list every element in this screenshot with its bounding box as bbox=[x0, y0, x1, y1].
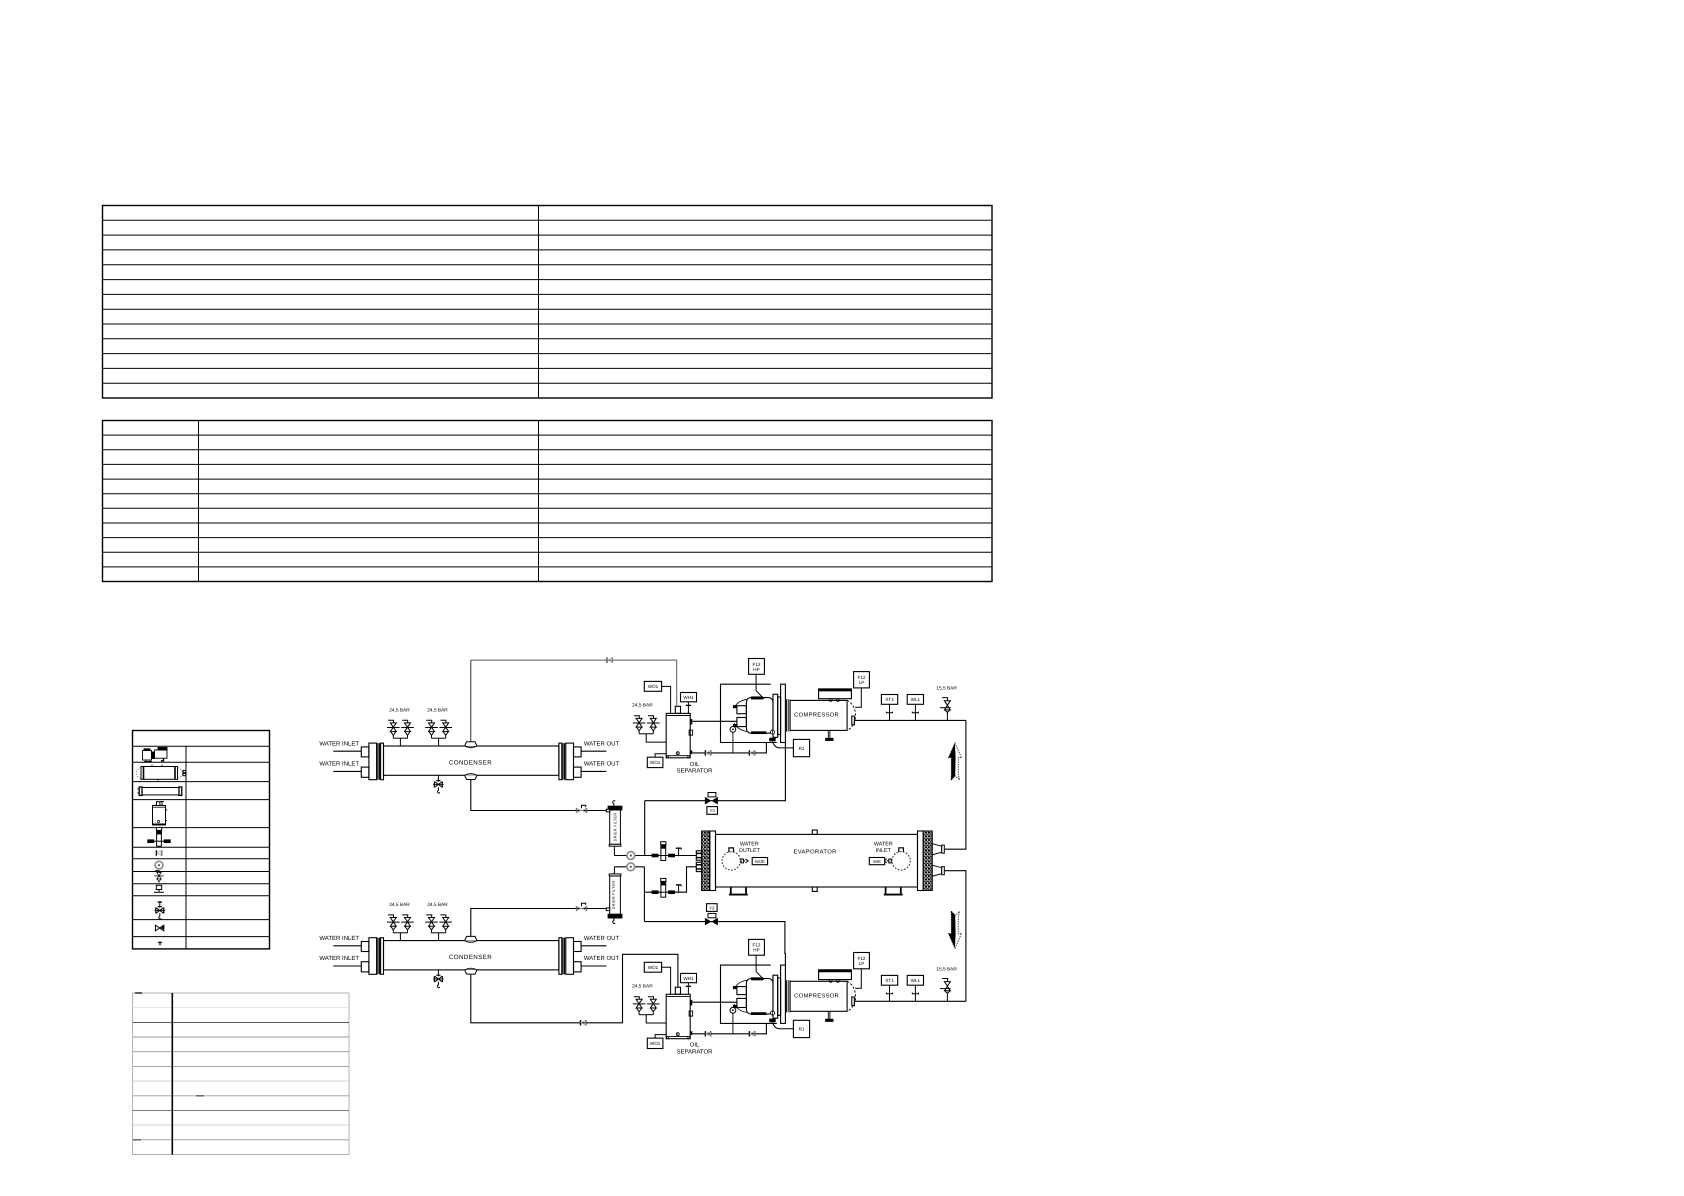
svg-text:COMPRESSOR: COMPRESSOR bbox=[794, 712, 839, 719]
condenser top nozzle (upper) bbox=[465, 742, 477, 746]
oil separator (lower) bbox=[666, 987, 692, 1039]
WO1 bottom box (upper) bbox=[655, 754, 666, 758]
svg-text:SEPARATOR: SEPARATOR bbox=[676, 1049, 713, 1056]
svg-text:WO1: WO1 bbox=[648, 965, 659, 970]
drier filter (upper) bbox=[606, 801, 622, 856]
svg-text:WATER: WATER bbox=[874, 841, 893, 847]
svg-text:Y3: Y3 bbox=[709, 905, 715, 910]
relief valve pair 2 (upper) (24,5 BAR) bbox=[438, 738, 440, 746]
oil check valve 1 (lower) bbox=[705, 1031, 710, 1036]
evaporator right cones bbox=[932, 844, 944, 877]
liquid line lower 2 bbox=[614, 866, 644, 868]
svg-text:24,5 BAR: 24,5 BAR bbox=[427, 902, 448, 908]
condenser drain valve (lower) bbox=[433, 970, 444, 988]
svg-text:24,5 BAR: 24,5 BAR bbox=[632, 983, 653, 989]
svg-text:DRIER FILTER: DRIER FILTER bbox=[611, 881, 616, 910]
bypass drop upper bbox=[644, 801, 646, 856]
condenser vessel (upper) bbox=[361, 743, 581, 780]
legend icon: solenoid valve bbox=[155, 925, 164, 931]
svg-text:Y3: Y3 bbox=[710, 808, 716, 813]
relief valve pair 2 (lower) (24,5 BAR) bbox=[438, 933, 440, 941]
svg-text:WATER INLET: WATER INLET bbox=[319, 760, 359, 767]
svg-text:24,5 BAR: 24,5 BAR bbox=[427, 708, 448, 714]
legend icon: compressor bbox=[143, 748, 168, 762]
svg-text:WATER INLET: WATER INLET bbox=[319, 955, 359, 962]
condenser bottom nozzle (lower) bbox=[465, 970, 477, 974]
Y3 solenoid valve upper bbox=[705, 797, 718, 805]
svg-text:15,5 BAR: 15,5 BAR bbox=[936, 967, 957, 973]
R1 box (upper) bbox=[773, 741, 794, 748]
svg-text:WATER OUT: WATER OUT bbox=[584, 760, 620, 767]
svg-text:LP: LP bbox=[859, 961, 865, 966]
svg-text:DRIER FILTER: DRIER FILTER bbox=[613, 813, 618, 842]
discharge pipe (upper) bbox=[854, 719, 966, 721]
WL1 box (lower) bbox=[914, 985, 916, 1001]
hot gas check valve upper bbox=[607, 657, 612, 662]
hot gas line upper (grey) bbox=[470, 660, 472, 742]
svg-text:WO1: WO1 bbox=[650, 1041, 661, 1046]
svg-text:CONDENSER: CONDENSER bbox=[449, 954, 492, 961]
compressor sight glass (upper) bbox=[730, 727, 736, 733]
revision table (faint) bbox=[133, 993, 349, 1155]
legend icon: temperature sensor bbox=[158, 942, 162, 945]
water outlet circle bbox=[722, 852, 740, 870]
R1 box (lower) bbox=[773, 1022, 794, 1029]
svg-text:INLET: INLET bbox=[876, 848, 892, 854]
tee cap lower bbox=[676, 885, 681, 892]
WO1 bottom box (lower) bbox=[655, 1035, 666, 1039]
WL1 box (upper) bbox=[914, 704, 916, 720]
svg-text:24,5 BAR: 24,5 BAR bbox=[632, 703, 653, 709]
F12 LP box (upper) bbox=[855, 688, 861, 707]
svg-text:ST1: ST1 bbox=[885, 978, 894, 983]
svg-text:24,5 BAR: 24,5 BAR bbox=[389, 902, 410, 908]
Y3 bypass line lower bbox=[644, 922, 785, 966]
svg-text:EVAPORATOR: EVAPORATOR bbox=[793, 848, 836, 855]
oil separator (upper) bbox=[666, 706, 692, 758]
svg-text:OIL: OIL bbox=[690, 1042, 700, 1049]
tee cap upper bbox=[676, 848, 681, 855]
svg-text:WL1: WL1 bbox=[911, 697, 921, 702]
svg-text:COMPRESSOR: COMPRESSOR bbox=[794, 993, 839, 1000]
suction riser lower bbox=[944, 871, 966, 1002]
discharge pipe (lower) bbox=[854, 1000, 966, 1002]
condenser drain valve (upper) bbox=[433, 775, 444, 793]
suction riser upper bbox=[944, 720, 966, 849]
spec table 2 (empty rows) bbox=[103, 421, 993, 582]
WIE box bbox=[889, 859, 891, 863]
F13 HP box (lower) bbox=[756, 955, 764, 980]
bypass drop lower bbox=[643, 867, 645, 922]
Y3 solenoid valve lower bbox=[705, 918, 718, 926]
svg-text:WH1: WH1 bbox=[683, 695, 694, 700]
svg-text:15,5 BAR: 15,5 BAR bbox=[936, 686, 957, 692]
WH1 box (upper) bbox=[681, 693, 697, 702]
flow arrow down bbox=[948, 911, 961, 948]
relief valve pair 1 (upper) (24,5 BAR) bbox=[399, 738, 401, 746]
svg-text:WO1: WO1 bbox=[648, 684, 659, 689]
compressor (lower) bbox=[721, 965, 856, 1023]
relief valve pair 1 (lower) (24,5 BAR) bbox=[399, 933, 401, 941]
condenser bottom nozzle (upper) bbox=[465, 775, 477, 779]
WH1 connection (upper) bbox=[687, 702, 689, 714]
liquid line upper bbox=[471, 780, 607, 811]
condenser vessel (lower) bbox=[361, 938, 581, 975]
svg-text:OIL: OIL bbox=[690, 761, 700, 768]
suction line (lower) bbox=[692, 1001, 737, 1003]
legend icon: evaporator bbox=[138, 787, 182, 795]
flow arrow up bbox=[948, 743, 961, 780]
compressor (upper) bbox=[721, 684, 856, 742]
svg-text:CONDENSER: CONDENSER bbox=[449, 760, 492, 767]
svg-text:R1: R1 bbox=[799, 746, 805, 751]
WO1 top box (lower) bbox=[662, 967, 671, 994]
svg-text:WATER OUT: WATER OUT bbox=[584, 935, 620, 942]
svg-text:WATER OUT: WATER OUT bbox=[584, 741, 620, 748]
ST1 box (lower) bbox=[889, 985, 891, 1001]
svg-text:HP: HP bbox=[753, 667, 759, 672]
legend icon: oil separator bbox=[152, 802, 167, 825]
hot gas line lower bbox=[471, 954, 678, 1023]
oil check valve 2 (upper) bbox=[749, 750, 754, 755]
legend table bbox=[133, 731, 270, 949]
oil check valve 1 (upper) bbox=[705, 750, 710, 755]
compressor sight glass (lower) bbox=[730, 1007, 736, 1013]
liquid line lower 3 bbox=[644, 867, 696, 892]
evaporator supports bbox=[731, 887, 746, 894]
legend icon: expansion valve bbox=[151, 840, 168, 842]
svg-text:OUTLET: OUTLET bbox=[739, 848, 761, 854]
water inlet circle bbox=[892, 852, 910, 870]
svg-text:WOE: WOE bbox=[755, 859, 765, 864]
Y3 bypass line upper bbox=[645, 743, 786, 801]
svg-text:ST1: ST1 bbox=[885, 697, 894, 702]
svg-text:WH1: WH1 bbox=[683, 976, 694, 981]
svg-text:LP: LP bbox=[859, 680, 865, 685]
spec table 1 (empty rows) bbox=[103, 206, 993, 399]
legend icon: charge valve bbox=[158, 901, 162, 903]
oil check valve 2 (lower) bbox=[749, 1031, 754, 1036]
water inlet lines (lower) bbox=[333, 946, 606, 966]
liquid stop valve upper bbox=[577, 805, 587, 813]
svg-text:WIE: WIE bbox=[873, 859, 881, 864]
water inlet lines (upper) bbox=[333, 751, 606, 771]
legend icon: check valve bbox=[156, 850, 161, 855]
svg-text:SEPARATOR: SEPARATOR bbox=[676, 768, 713, 775]
oil return line (upper) bbox=[692, 742, 766, 753]
ST1 box (upper) bbox=[889, 704, 891, 720]
legend icon: sight glass bbox=[155, 861, 163, 869]
oil return line (lower) bbox=[692, 1023, 766, 1034]
svg-text:WL1: WL1 bbox=[911, 978, 921, 983]
svg-text:WATER INLET: WATER INLET bbox=[319, 741, 359, 748]
svg-text:R1: R1 bbox=[799, 1027, 805, 1032]
drier filter (lower) bbox=[606, 867, 622, 924]
legend icon: relief valve bbox=[154, 871, 163, 883]
svg-text:24,5 BAR: 24,5 BAR bbox=[389, 708, 410, 714]
expansion valve upper bbox=[652, 842, 674, 861]
svg-text:WO1: WO1 bbox=[650, 760, 661, 765]
WOE box bbox=[741, 859, 743, 863]
hot gas check valve lower bbox=[581, 1020, 586, 1025]
F12 LP box (lower) bbox=[855, 969, 861, 988]
expansion valve lower bbox=[652, 878, 674, 897]
WO1 top box (upper) bbox=[662, 686, 671, 713]
WH1 box (lower) bbox=[681, 973, 697, 982]
svg-text:HP: HP bbox=[753, 948, 759, 953]
sight glass lower bbox=[627, 863, 635, 871]
svg-text:WATER INLET: WATER INLET bbox=[319, 935, 359, 942]
WH1 connection (lower) bbox=[687, 983, 689, 995]
legend icon: solenoid coil bbox=[154, 885, 164, 892]
suction line (upper) bbox=[692, 720, 737, 722]
liquid stop valve lower bbox=[577, 903, 587, 911]
liquid line lower bbox=[471, 909, 607, 937]
condenser top nozzle (lower) bbox=[465, 936, 477, 940]
liquid line upper 2 bbox=[614, 855, 696, 857]
evaporator left nozzles bbox=[696, 851, 701, 872]
F13 HP box (upper) bbox=[756, 674, 764, 699]
sight glass upper bbox=[627, 852, 635, 860]
svg-text:WATER OUT: WATER OUT bbox=[584, 955, 620, 962]
legend icon: condenser bbox=[136, 765, 186, 781]
svg-text:WATER: WATER bbox=[740, 841, 759, 847]
